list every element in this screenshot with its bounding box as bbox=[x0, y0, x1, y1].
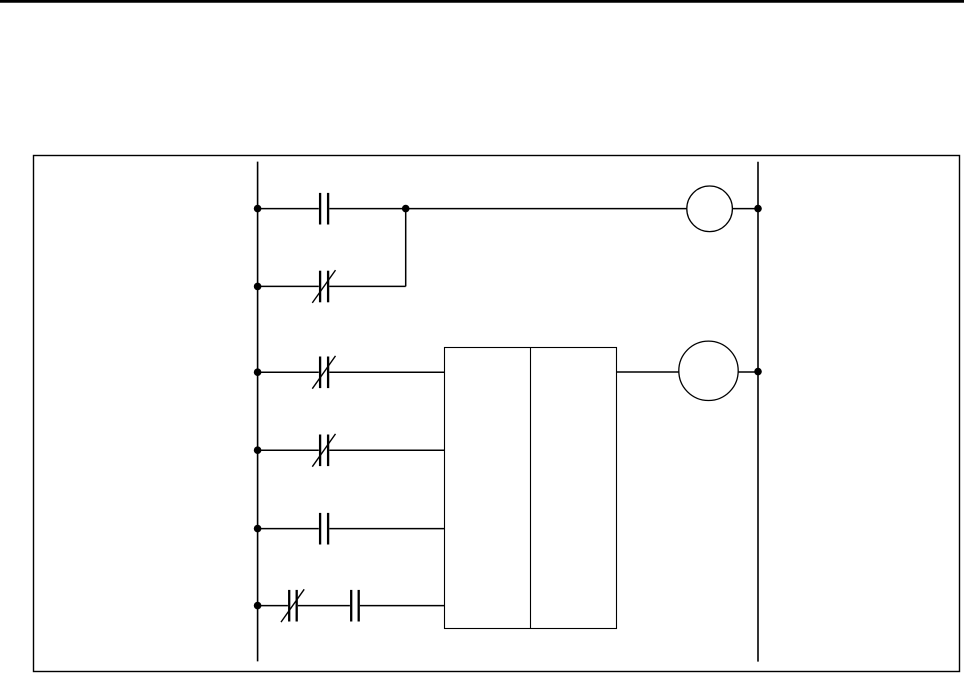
contact NC rung4 bbox=[312, 434, 335, 467]
wire rung2 left bbox=[258, 285, 319, 287]
coil rung1 bbox=[687, 186, 733, 232]
left power rail bbox=[257, 162, 259, 662]
wire rung4 to block bbox=[329, 449, 444, 451]
node rail-left rung4 bbox=[254, 446, 262, 454]
node rail-left rung2 bbox=[254, 283, 262, 291]
wire rung1 left bbox=[258, 208, 319, 210]
contact NO rung6 bbox=[351, 590, 359, 622]
wire branch vertical bbox=[405, 209, 407, 287]
node rail-right rung3 bbox=[754, 368, 762, 376]
node branch rung1 bbox=[402, 205, 410, 213]
node rail-left rung1 bbox=[254, 205, 262, 213]
function block bbox=[445, 348, 617, 629]
node rail-left rung3 bbox=[254, 368, 262, 376]
wire rung5 to block bbox=[329, 528, 444, 530]
contact NO rung5 bbox=[320, 513, 328, 545]
node rail-left rung6 bbox=[254, 602, 262, 610]
wire rung3 to block bbox=[329, 371, 444, 373]
wire rung1 middle bbox=[329, 208, 687, 210]
wire rung6 middle bbox=[298, 605, 350, 607]
contact NC rung3 bbox=[312, 356, 335, 389]
wire rung6 to block bbox=[360, 605, 445, 607]
wire coil2 to rail bbox=[738, 371, 758, 373]
right power rail bbox=[757, 162, 759, 662]
coil rung3 output bbox=[679, 341, 738, 400]
wire rung1 right bbox=[732, 208, 758, 210]
wire rung6 left bbox=[258, 605, 288, 607]
wire rung3 left bbox=[258, 371, 319, 373]
node rail-left rung5 bbox=[254, 525, 262, 533]
contact NC rung2 bbox=[312, 270, 335, 303]
wire rung5 left bbox=[258, 528, 319, 530]
wire rung4 left bbox=[258, 449, 319, 451]
wire block output bbox=[617, 371, 679, 373]
contact NO rung1 bbox=[320, 193, 328, 225]
wire rung2 right bbox=[329, 285, 405, 287]
contact NC rung6 bbox=[281, 589, 304, 622]
node rail-right rung1 bbox=[754, 205, 762, 213]
